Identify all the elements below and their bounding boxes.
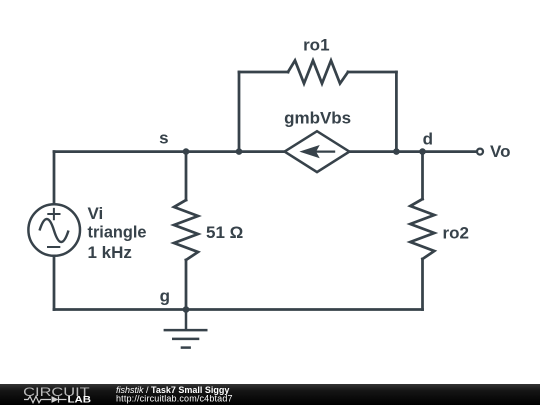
svg-text:LAB: LAB: [68, 394, 92, 404]
wire: ro1 left vertical lead: [238, 72, 241, 152]
svg-text:1 kHz: 1 kHz: [88, 243, 132, 262]
voltage source V1 plus sign: [47, 208, 60, 220]
wire: ro2 bottom lead: [421, 259, 424, 310]
node label d: [423, 130, 433, 149]
footer bar: [0, 384, 540, 405]
ground symbol: [164, 310, 208, 348]
label gmbVbs: [284, 108, 351, 127]
svg-text:d: d: [423, 130, 433, 149]
label Vo: [490, 142, 510, 161]
svg-text:Vo: Vo: [490, 142, 510, 161]
svg-text:Vi: Vi: [88, 204, 104, 223]
svg-text:51 Ω: 51 Ω: [206, 223, 243, 242]
wire: 51 ohm resistor top lead: [185, 152, 188, 200]
wire: left branch bottom (V source to bottom net): [53, 256, 56, 309]
voltage source V1 sine symbol: [40, 219, 69, 242]
svg-text:ro2: ro2: [443, 224, 469, 243]
node junction dot ro1 right: [393, 148, 400, 155]
wire: main horizontal net s-d: [54, 150, 476, 153]
label 51 ohm: [206, 223, 243, 242]
svg-text:ro1: ro1: [303, 36, 329, 55]
svg-text:gmbVbs: gmbVbs: [284, 108, 351, 127]
footer logo resistor-diode doodle: [24, 396, 67, 402]
wire: bottom horizontal net g: [54, 308, 423, 311]
wire: 51 ohm resistor bottom lead: [185, 260, 188, 310]
node label g: [160, 287, 170, 306]
label Vi triangle 1 kHz: [88, 204, 147, 262]
wire: ro1 top left lead: [239, 71, 288, 74]
svg-text:s: s: [159, 129, 168, 148]
dependent current source gmbVbs diamond: [285, 131, 350, 172]
resistor ro2 zigzag: [410, 199, 434, 259]
node junction dot g: [183, 306, 190, 313]
wire: ro1 top right lead: [348, 71, 396, 74]
node junction dot ro1 left: [236, 148, 243, 155]
label ro1: [303, 36, 329, 55]
dependent current source arrow: [301, 146, 335, 158]
footer logo LAB: [68, 394, 92, 404]
footer title text: [116, 385, 233, 403]
node junction dot s: [183, 148, 190, 155]
node junction dot d: [419, 148, 426, 155]
footer logo CIRCUIT: [23, 387, 90, 399]
node label s: [159, 129, 168, 148]
resistor ro1 zigzag: [288, 61, 348, 84]
svg-text:g: g: [160, 287, 170, 306]
wire: left branch top (s to V source): [53, 152, 56, 204]
resistor 51 ohm zigzag: [174, 200, 198, 260]
wire: ro1 right vertical lead: [395, 72, 398, 152]
voltage source V1 circle: [28, 204, 80, 256]
svg-text:triangle: triangle: [88, 222, 147, 241]
wire: ro2 top lead: [421, 152, 424, 199]
terminal Vo open circle: [477, 149, 483, 155]
voltage source V1 minus sign: [47, 246, 60, 248]
svg-text:http://circuitlab.com/c4btad7: http://circuitlab.com/c4btad7: [116, 394, 233, 404]
label ro2: [443, 224, 469, 243]
